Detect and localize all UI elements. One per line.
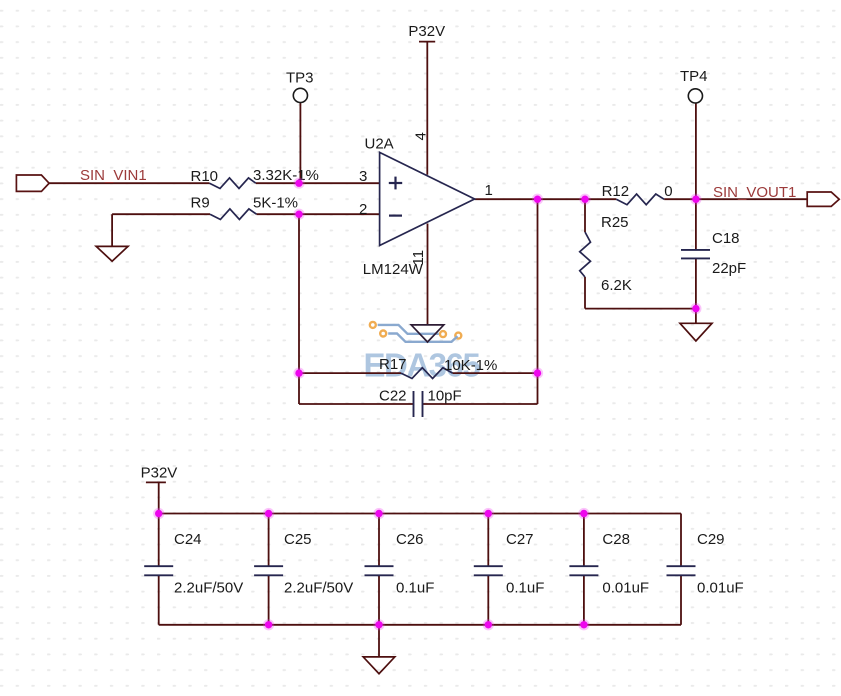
svg-text:C26: C26 xyxy=(396,531,424,548)
wire: ground stem below row B xyxy=(111,214,113,246)
wire: op-amp pin 11 down to ground xyxy=(427,224,429,325)
wire: R25 bottom lead xyxy=(584,277,586,309)
node: junction C25 top xyxy=(263,508,274,519)
svg-text:10K-1%: 10K-1% xyxy=(444,357,497,374)
EDA365 watermark logo xyxy=(364,322,481,384)
svg-text:6.2K: 6.2K xyxy=(601,277,632,294)
node: junction output/feedback right xyxy=(532,194,543,205)
wire: output row C from R12 to port xyxy=(664,198,807,200)
wire: ground stem below C18 xyxy=(695,309,697,324)
svg-text:10pF: 10pF xyxy=(428,388,462,405)
wire: feedback right vertical from output down xyxy=(537,199,539,404)
wire: TP4 drop to row C xyxy=(695,103,697,199)
wire: C25 bottom lead xyxy=(268,575,270,625)
wire: input row A from port to op-amp pin3 (left of R10) xyxy=(49,182,209,184)
wire: C24 bottom lead xyxy=(158,575,160,625)
node: junction C28 bottom xyxy=(578,619,589,630)
node: junction C26 top xyxy=(373,508,384,519)
svg-text:3.32K-1%: 3.32K-1% xyxy=(253,167,319,184)
svg-text:2.2uF/50V: 2.2uF/50V xyxy=(174,580,243,597)
svg-text:R9: R9 xyxy=(191,195,210,212)
svg-text:P32V: P32V xyxy=(141,465,178,482)
wire: C22 right lead xyxy=(423,403,538,405)
wire: C18 bottom lead xyxy=(695,258,697,308)
wire: P32V drop to op-amp pin 4 xyxy=(426,42,428,175)
wire: R17 left lead xyxy=(299,372,401,374)
svg-text:C28: C28 xyxy=(602,531,630,548)
resistor R12 xyxy=(616,194,664,205)
wire: C25 top lead xyxy=(268,514,270,567)
node: junction C28 top xyxy=(578,508,589,519)
wire: feedback left vertical from pin2 node down xyxy=(298,214,300,404)
svg-text:U2A: U2A xyxy=(365,135,394,152)
wire: C29 top lead xyxy=(680,514,682,567)
wire: row A right lead of R10 to pin 3 xyxy=(256,182,380,184)
wire: C22 left lead xyxy=(299,403,414,405)
node: junction C26 bottom / ground xyxy=(373,619,384,630)
svg-text:R17: R17 xyxy=(379,356,407,373)
svg-text:P32V: P32V xyxy=(408,23,445,40)
node: junction R25 bottom / C18 bottom / ground xyxy=(690,303,701,314)
port SIN_VIN1 input connector xyxy=(16,175,49,191)
svg-text:C24: C24 xyxy=(174,531,202,548)
wire: C26 top lead xyxy=(378,514,380,567)
wire: C28 bottom lead xyxy=(583,575,585,625)
svg-text:1: 1 xyxy=(485,182,493,199)
svg-text:C18: C18 xyxy=(712,230,740,247)
wire: R25 top lead xyxy=(584,199,586,232)
capacitor C24 xyxy=(144,566,173,575)
svg-text:R10: R10 xyxy=(191,168,219,185)
resistor R17 feedback xyxy=(401,368,453,379)
svg-text:C27: C27 xyxy=(506,531,534,548)
wire: row B right lead of R9 to pin 2 xyxy=(257,213,380,215)
wire: C27 bottom lead xyxy=(487,575,489,625)
node: junction R9/pin2/feedback xyxy=(293,209,304,220)
wire: row B ground corner to R9 xyxy=(112,213,210,215)
wire: C26 bottom lead xyxy=(378,575,380,625)
node: junction TP4/R12/C18/port xyxy=(690,194,701,205)
port SIN_VOUT1 output connector xyxy=(807,192,839,206)
resistor R10 xyxy=(210,178,256,189)
svg-text:3: 3 xyxy=(359,168,367,185)
svg-text:SIN_VOUT1: SIN_VOUT1 xyxy=(713,184,796,201)
ground under R9 xyxy=(96,246,128,261)
op-amp minus input mark xyxy=(389,215,402,217)
svg-text:C25: C25 xyxy=(284,531,312,548)
capacitor C18 xyxy=(681,250,710,259)
svg-text:0.1uF: 0.1uF xyxy=(506,580,544,597)
svg-text:5K-1%: 5K-1% xyxy=(253,195,298,212)
node: junction C25 bottom xyxy=(263,619,274,630)
svg-text:4: 4 xyxy=(413,132,430,140)
power symbol P32V top xyxy=(419,41,435,43)
svg-text:TP4: TP4 xyxy=(680,68,708,85)
wire: TP3 drop to row A xyxy=(299,102,301,183)
capacitor C22 feedback xyxy=(414,391,423,417)
capacitor C28 xyxy=(569,566,598,575)
svg-text:0: 0 xyxy=(664,183,672,200)
node: junction C27 bottom xyxy=(483,619,494,630)
wire: C28 top lead xyxy=(583,514,585,567)
svg-text:C22: C22 xyxy=(379,388,407,405)
wire: R25 bottom horizontal to C18 node xyxy=(585,308,696,310)
node: junction C27 top xyxy=(483,508,494,519)
wire: R17 right lead xyxy=(453,372,538,374)
test point TP4 xyxy=(688,89,702,103)
node: junction TP3/R10/pin3 xyxy=(293,178,304,189)
svg-text:C29: C29 xyxy=(697,531,725,548)
node: junction R17 right xyxy=(532,368,543,379)
op-amp U2A triangle xyxy=(380,152,475,245)
wire: C27 top lead xyxy=(487,514,489,567)
capacitor C27 xyxy=(474,566,503,575)
svg-text:11: 11 xyxy=(410,250,427,266)
svg-text:0.01uF: 0.01uF xyxy=(697,580,744,597)
svg-text:R12: R12 xyxy=(602,183,630,200)
svg-text:SIN_VIN1: SIN_VIN1 xyxy=(80,167,147,184)
node: junction R17 left xyxy=(293,368,304,379)
svg-text:2: 2 xyxy=(359,201,367,218)
wire: C29 bottom lead xyxy=(680,575,682,625)
svg-text:TP3: TP3 xyxy=(286,69,314,86)
op-amp plus input mark xyxy=(389,177,402,190)
resistor R25 (vertical) xyxy=(580,232,591,277)
node: junction P32V / C24 top xyxy=(153,508,164,519)
wire: top bus of capacitor bank xyxy=(159,513,681,515)
node: junction output/R25 xyxy=(579,194,590,205)
svg-text:2.2uF/50V: 2.2uF/50V xyxy=(284,580,353,597)
ground below op-amp pin 11 xyxy=(411,325,444,342)
svg-text:22pF: 22pF xyxy=(712,260,746,277)
wire: P32V to top bus xyxy=(158,482,160,513)
wire: ground stem below bottom bus xyxy=(378,625,380,657)
capacitor C29 xyxy=(667,566,696,575)
resistor R9 xyxy=(210,209,257,220)
wire: bottom bus of capacitor bank xyxy=(159,624,681,626)
wire: output row C from pin 1 to R12 xyxy=(475,198,617,200)
svg-text:0.1uF: 0.1uF xyxy=(396,580,434,597)
ground below capacitor bank xyxy=(363,657,395,674)
wire: C24 top lead xyxy=(158,514,160,567)
power symbol P32V bottom xyxy=(146,481,166,483)
ground under C18 xyxy=(680,323,712,341)
test point TP3 xyxy=(293,88,307,102)
svg-text:R25: R25 xyxy=(601,214,629,231)
capacitor C26 xyxy=(365,566,394,575)
svg-text:0.01uF: 0.01uF xyxy=(602,580,649,597)
wire: C18 top lead xyxy=(695,199,697,250)
capacitor C25 xyxy=(254,566,283,575)
